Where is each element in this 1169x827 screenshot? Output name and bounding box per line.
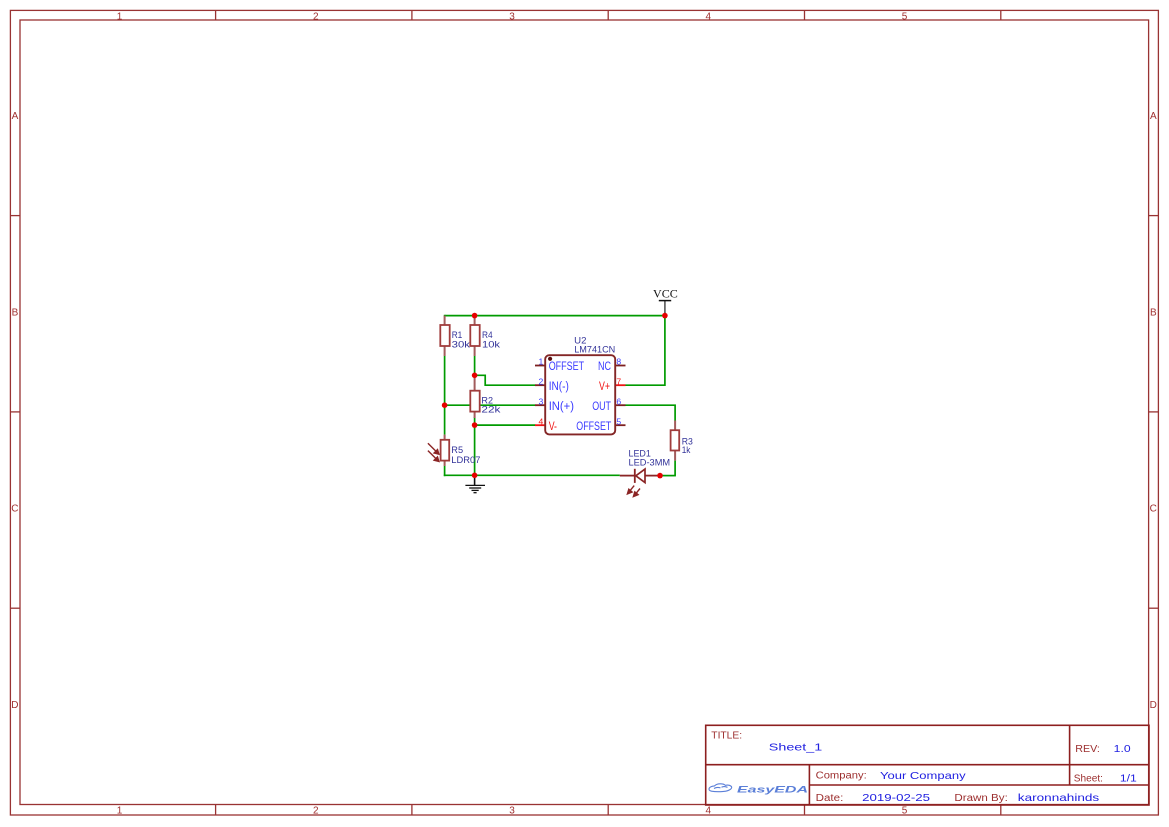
- svg-text:4: 4: [539, 416, 544, 426]
- junction: VCC rail / R4 top: [472, 313, 478, 319]
- wire: VCC stub joint: [664, 313, 666, 316]
- U2 pin 6 stub: [615, 404, 625, 406]
- U2 pin 8 stub: [615, 365, 625, 367]
- wire: VCC top rail: [445, 315, 665, 317]
- svg-text:5: 5: [902, 806, 908, 817]
- svg-text:OFFSET: OFFSET: [549, 361, 584, 373]
- svg-text:3: 3: [509, 806, 515, 817]
- wire: U2 pin 7 to VCC rail: [626, 316, 665, 385]
- svg-text:Drawn By:: Drawn By:: [954, 793, 1007, 804]
- svg-text:4: 4: [706, 11, 712, 22]
- svg-text:NC: NC: [598, 361, 611, 373]
- wire: node C to U2 pin 4: [475, 424, 536, 426]
- svg-text:Company:: Company:: [816, 771, 867, 782]
- junction: LED1 / R3 node: [657, 473, 663, 479]
- U2 pin 1 stub: [535, 365, 545, 367]
- wire: node A to U2 pin 3: [445, 404, 536, 406]
- svg-text:6: 6: [616, 396, 621, 406]
- svg-text:2: 2: [313, 11, 319, 22]
- svg-text:2: 2: [313, 806, 319, 817]
- wire: R3 leg to LED1 cathode node: [660, 475, 676, 477]
- svg-text:4: 4: [706, 806, 712, 817]
- svg-text:OFFSET: OFFSET: [576, 421, 611, 433]
- wire: R3 bottom leg: [674, 461, 676, 476]
- svg-text:Date:: Date:: [816, 793, 844, 804]
- svg-text:A: A: [1150, 111, 1157, 122]
- svg-text:7: 7: [616, 376, 621, 386]
- svg-text:V+: V+: [599, 381, 610, 393]
- wire: R5 bottom to ground rail: [444, 466, 446, 476]
- junction: ground node: [472, 473, 478, 479]
- wire: R4 bottom to node B: [474, 356, 476, 375]
- wire: top rail left end: [444, 315, 446, 317]
- photoresistor R5: [428, 435, 449, 466]
- svg-text:2019-02-25: 2019-02-25: [862, 792, 930, 804]
- svg-text:REV:: REV:: [1075, 744, 1100, 755]
- svg-text:V-: V-: [549, 421, 557, 433]
- svg-text:IN(-): IN(-): [549, 381, 569, 393]
- svg-text:OUT: OUT: [592, 401, 611, 413]
- svg-text:Your Company: Your Company: [880, 770, 967, 782]
- svg-text:Sheet:: Sheet:: [1074, 773, 1103, 784]
- svg-text:karonnahinds: karonnahinds: [1018, 792, 1099, 804]
- resistor R3: [671, 421, 680, 461]
- svg-text:LDR07: LDR07: [451, 455, 480, 466]
- svg-text:Sheet_1: Sheet_1: [769, 742, 823, 754]
- wire: node C down to ground node: [474, 425, 476, 475]
- op-amp U2 LM741CN: [535, 355, 626, 434]
- svg-text:C: C: [11, 504, 18, 515]
- svg-text:LM741CN: LM741CN: [574, 345, 615, 356]
- svg-text:5: 5: [902, 11, 908, 22]
- resistor R4: [470, 316, 479, 356]
- junction: node B (R4/R2/pin2): [472, 373, 478, 379]
- svg-text:1k: 1k: [682, 445, 691, 456]
- title block: [706, 725, 1149, 805]
- svg-text:A: A: [12, 111, 19, 122]
- svg-text:1/1: 1/1: [1120, 772, 1137, 784]
- svg-text:D: D: [1150, 700, 1157, 711]
- wire: R1 bottom through node A to R5 top: [444, 356, 446, 435]
- resistor R1: [440, 316, 449, 356]
- svg-text:5: 5: [616, 416, 621, 426]
- svg-text:B: B: [12, 308, 19, 319]
- EasyEDA logo: [709, 784, 808, 795]
- svg-text:IN(+): IN(+): [549, 401, 574, 413]
- svg-text:2: 2: [539, 376, 544, 386]
- junction: node C (R2/pin4): [472, 422, 478, 428]
- svg-text:C: C: [1150, 504, 1157, 515]
- svg-text:B: B: [1150, 308, 1157, 319]
- U2 pin 5 stub: [615, 424, 625, 426]
- U2 pin 2 stub: [535, 384, 545, 386]
- junction: node A (R1/R5/pin3): [442, 402, 448, 408]
- svg-text:3: 3: [539, 396, 544, 406]
- svg-text:D: D: [11, 700, 18, 711]
- LED LED1: [620, 469, 660, 497]
- power flag VCC: [653, 289, 678, 313]
- svg-text:1: 1: [117, 806, 123, 817]
- U2 pin 3 stub: [535, 404, 545, 406]
- U2 body: [545, 355, 615, 434]
- svg-text:1: 1: [539, 357, 544, 367]
- wire: ground rail to LED1 anode: [444, 474, 620, 476]
- svg-text:1: 1: [117, 11, 123, 22]
- svg-text:VCC: VCC: [653, 289, 678, 301]
- junction: VCC flag on rail: [662, 313, 668, 319]
- U2 pin 7 stub: [615, 384, 625, 386]
- svg-text:8: 8: [616, 357, 621, 367]
- svg-text:22k: 22k: [481, 405, 500, 416]
- U2 pin 1 marker dot: [548, 357, 552, 361]
- U2 pin 4 stub: [535, 424, 545, 426]
- svg-text:10k: 10k: [482, 339, 500, 350]
- svg-text:EasyEDA: EasyEDA: [737, 784, 808, 794]
- wire: node B to U2 pin 2: [475, 375, 536, 385]
- svg-text:30k: 30k: [452, 339, 471, 350]
- resistor R2: [470, 377, 479, 418]
- svg-text:1.0: 1.0: [1114, 743, 1131, 755]
- ground: [465, 477, 485, 493]
- svg-text:3: 3: [509, 11, 515, 22]
- wire: R2 bottom to node C: [474, 417, 476, 425]
- wire: U2 pin 6 OUT to R3 top: [626, 405, 676, 420]
- svg-text:TITLE:: TITLE:: [711, 731, 742, 742]
- svg-text:LED-3MM: LED-3MM: [629, 458, 671, 469]
